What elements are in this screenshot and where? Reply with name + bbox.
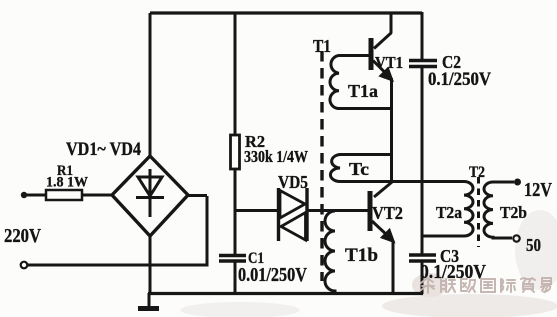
scan noise blobs (decorative): [180, 210, 557, 317]
resistor R1: [46, 190, 82, 200]
diode symbol inside bridge: [136, 169, 164, 217]
wire top rail: [150, 11, 422, 14]
char 际: [501, 279, 515, 292]
char 贸: [521, 278, 535, 292]
capacitor C1: [219, 256, 246, 262]
transistor VT2: [370, 182, 394, 242]
transformer T2 core: [477, 177, 480, 247]
char 华: [421, 278, 434, 293]
svg-text:50: 50: [526, 235, 541, 255]
node 50 terminal: [513, 235, 519, 241]
transistor VT1: [371, 12, 393, 81]
watermark 华联欧国际贸易 (vector, light emboss): [421, 278, 551, 293]
wire VT2 emitter down: [392, 240, 395, 294]
wire right rail middle: [421, 67, 424, 254]
wire VD5 to VT2 base: [308, 209, 368, 212]
svg-text:330k 1/4W: 330k 1/4W: [244, 147, 308, 166]
svg-text:1.8 1W: 1.8 1W: [46, 175, 88, 191]
wire right rail upper: [421, 12, 424, 60]
char 联: [441, 279, 455, 292]
node 12V terminal: [514, 179, 521, 186]
char 国: [481, 279, 495, 292]
wire bottom rail: [148, 292, 423, 295]
svg-text:T2a: T2a: [436, 203, 462, 222]
wire input to R1: [24, 194, 46, 197]
winding T2b: [484, 182, 514, 238]
capacitor C3: [409, 255, 436, 261]
svg-text:VT1: VT1: [375, 53, 403, 72]
diac VD5: [279, 188, 308, 241]
wire Tc bottom to T2a: [392, 180, 464, 183]
svg-text:T1: T1: [313, 36, 331, 56]
svg-text:12V: 12V: [524, 179, 552, 201]
char 欧: [461, 279, 475, 292]
winding T1a: [330, 56, 391, 109]
node top input terminal: [21, 192, 27, 198]
wire C1 to bottom rail: [234, 262, 237, 294]
wire bridge top vertical: [149, 13, 152, 157]
transformer T1 core: [320, 51, 323, 281]
svg-text:0.1/250V: 0.1/250V: [428, 69, 491, 90]
wire R2 to C1: [234, 169, 237, 255]
wire R2 branch top: [234, 13, 237, 135]
svg-text:VD1~ VD4: VD1~ VD4: [66, 139, 141, 160]
wire bridge bottom vertical: [149, 236, 152, 294]
svg-text:T2: T2: [469, 164, 485, 181]
char 易: [541, 278, 551, 292]
wire bridge right vertex stub: [188, 194, 207, 197]
wire right rail lower: [421, 262, 424, 294]
svg-text:220V: 220V: [4, 225, 41, 247]
svg-text:T1a: T1a: [348, 81, 378, 101]
svg-text:0.01/250V: 0.01/250V: [238, 265, 307, 286]
wire R1 to bridge: [82, 194, 112, 197]
wire bottom input to bridge right: [27, 196, 207, 265]
svg-text:T1b: T1b: [345, 245, 378, 266]
winding T2a: [423, 182, 473, 237]
resistor R2: [231, 135, 240, 169]
wire node to VD5: [235, 209, 277, 212]
ground: [138, 293, 159, 309]
capacitor C2: [409, 61, 437, 67]
svg-text:Tc: Tc: [349, 159, 369, 179]
svg-text:VT2: VT2: [372, 203, 403, 223]
winding Tc: [330, 155, 392, 182]
winding T1b: [325, 211, 335, 294]
node bottom input terminal: [21, 262, 28, 269]
svg-text:VD5: VD5: [278, 172, 308, 192]
wire VT1 emitter down: [390, 78, 393, 182]
svg-text:T2b: T2b: [500, 203, 527, 222]
bridge rectifier VD1~VD4: [112, 156, 188, 236]
